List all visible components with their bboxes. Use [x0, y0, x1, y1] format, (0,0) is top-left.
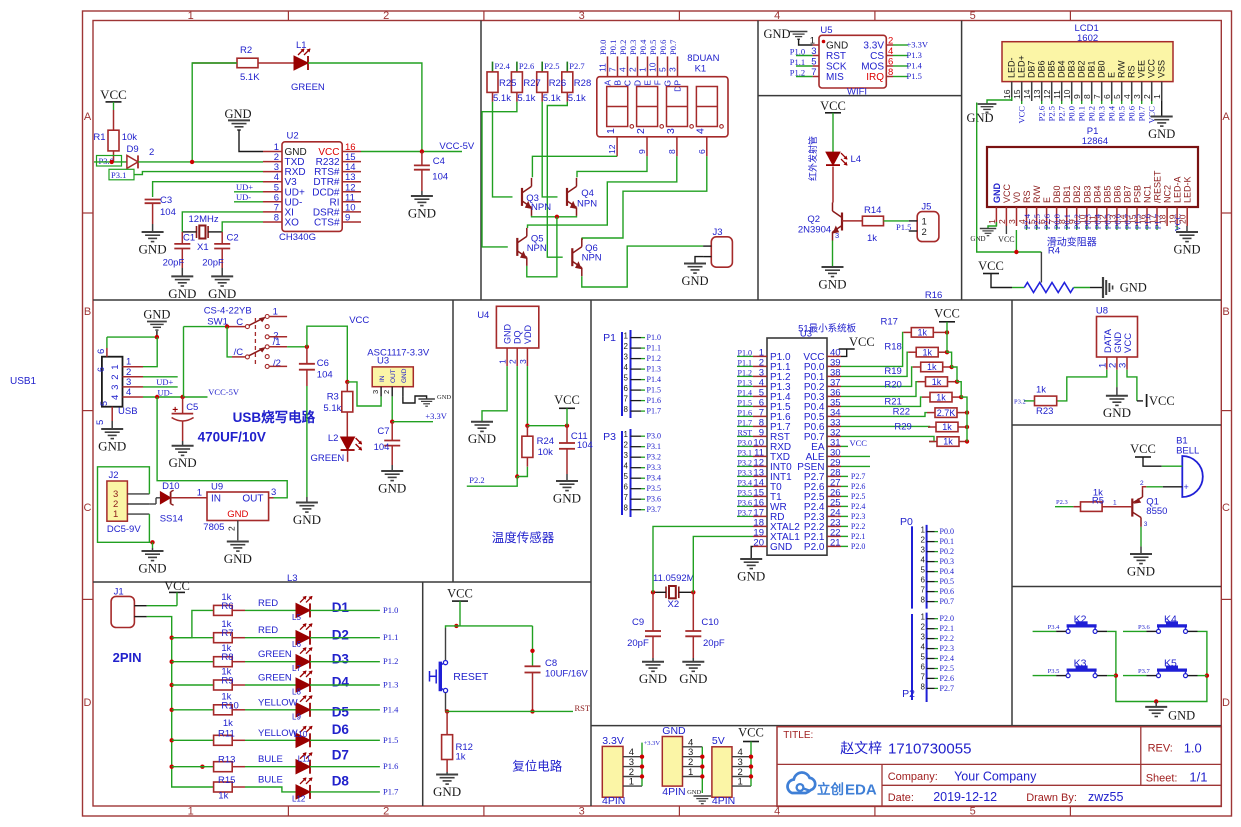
svg-text:1: 1	[624, 332, 629, 341]
svg-text:R11: R11	[218, 728, 235, 739]
ground under J2	[138, 548, 166, 575]
svg-text:温度传感器: 温度传感器	[492, 530, 555, 545]
svg-text:2PIN: 2PIN	[113, 650, 142, 665]
svg-text:C6: C6	[317, 358, 329, 369]
ground above U2 pin1	[224, 107, 263, 152]
svg-text:CTS#: CTS#	[314, 218, 340, 229]
power VCC top-left	[100, 87, 127, 110]
wire U4 DQ pin2	[515, 366, 519, 479]
svg-text:B: B	[613, 80, 623, 86]
wire U3 GND pin to ground	[403, 394, 451, 406]
pushbutton RESET	[430, 628, 489, 711]
svg-text:/RESET: /RESET	[1153, 170, 1163, 203]
svg-text:+3.3V: +3.3V	[907, 40, 929, 50]
svg-text:1k: 1k	[867, 233, 877, 244]
svg-text:USB烧写电路: USB烧写电路	[233, 409, 316, 425]
svg-text:LED-A: LED-A	[1173, 176, 1183, 203]
svg-text:R15: R15	[218, 775, 235, 786]
wire L1 to C4 column	[308, 63, 422, 152]
ground at U3 pin20	[737, 547, 765, 584]
svg-text:5: 5	[99, 401, 109, 406]
svg-text:VCC: VCC	[447, 587, 473, 601]
svg-text:NPN: NPN	[531, 202, 551, 213]
svg-text:1: 1	[921, 526, 926, 535]
svg-text:L11: L11	[298, 755, 311, 764]
svg-text:GND: GND	[681, 274, 708, 288]
header P1	[603, 330, 661, 418]
svg-text:104: 104	[577, 440, 593, 451]
svg-text:2: 2	[624, 441, 629, 450]
svg-text:3: 3	[665, 128, 677, 134]
ground at P1 pin1	[970, 222, 996, 243]
svg-text:3: 3	[518, 359, 528, 364]
svg-text:VCC: VCC	[978, 259, 1004, 273]
ground under C11	[553, 474, 581, 505]
svg-text:P3.4: P3.4	[1048, 624, 1060, 631]
wire P1 V0 pin3 to R4 wiper	[977, 103, 1042, 279]
svg-text:1: 1	[110, 364, 121, 369]
svg-text:10: 10	[648, 62, 658, 72]
svg-text:P1.0: P1.0	[790, 46, 805, 56]
svg-text:VCC: VCC	[349, 315, 369, 326]
svg-text:1: 1	[498, 359, 508, 364]
wire J2 pin3 loop to ground	[98, 467, 155, 548]
wire K1 pin8 to Q5 collector	[528, 156, 677, 228]
svg-text:P2: P2	[902, 688, 915, 700]
svg-text:2N3904: 2N3904	[798, 225, 831, 236]
svg-text:R23: R23	[1036, 406, 1053, 417]
svg-text:C: C	[623, 80, 633, 86]
svg-text:2: 2	[635, 128, 647, 134]
connector J5	[909, 202, 939, 242]
svg-text:EDA: EDA	[845, 782, 877, 799]
capacitor C5 470UF polarized	[172, 397, 199, 441]
svg-text:8DUAN: 8DUAN	[687, 53, 719, 64]
svg-text:P0.1: P0.1	[608, 40, 618, 55]
svg-text:P1.1: P1.1	[790, 57, 805, 67]
svg-text:2: 2	[921, 536, 926, 545]
module U5 WIFI	[810, 25, 894, 98]
svg-text:LED-K: LED-K	[1183, 176, 1193, 203]
svg-text:U3: U3	[377, 356, 389, 367]
svg-text:VCC: VCC	[1123, 333, 1134, 353]
svg-text:6: 6	[624, 384, 629, 393]
svg-text:GND: GND	[378, 480, 406, 495]
svg-text:DB0: DB0	[1097, 60, 1107, 78]
wire U2 V3 pin4 to C3	[153, 182, 263, 197]
svg-text:R1: R1	[93, 132, 105, 143]
svg-text:10UF/16V: 10UF/16V	[545, 669, 588, 680]
svg-text:YELLOW: YELLOW	[258, 697, 298, 708]
svg-text:1k: 1k	[927, 362, 937, 372]
svg-text:U2: U2	[287, 131, 299, 142]
svg-text:X1: X1	[197, 242, 209, 253]
svg-text:P1.4: P1.4	[907, 61, 923, 71]
wire K1 pin12 to Q3 collector	[532, 156, 617, 177]
svg-text:P1.1: P1.1	[738, 358, 752, 367]
svg-text:P2.5: P2.5	[1047, 106, 1057, 121]
ground under U9	[224, 542, 252, 566]
svg-text:D6: D6	[332, 722, 350, 737]
svg-text:P1.1: P1.1	[383, 632, 398, 642]
svg-text:GND: GND	[770, 542, 792, 553]
connector J3	[703, 227, 732, 267]
svg-text:4PIN: 4PIN	[662, 786, 685, 798]
connector GND 4PIN	[662, 725, 711, 804]
svg-text:3: 3	[1007, 219, 1017, 224]
svg-text:P1.3: P1.3	[647, 365, 661, 374]
svg-text:P1.5: P1.5	[738, 398, 752, 407]
svg-text:P2.2: P2.2	[940, 634, 954, 643]
wire USB shield net	[107, 335, 159, 367]
resistor R18 1k	[841, 342, 949, 377]
wire Q1 emitter to ground	[1127, 527, 1155, 579]
module U8	[1096, 306, 1138, 370]
svg-text:P0.3: P0.3	[940, 557, 954, 566]
svg-text:GREEN: GREEN	[311, 453, 345, 464]
svg-text:8: 8	[624, 504, 629, 513]
svg-text:P2.7: P2.7	[940, 684, 954, 693]
wire R26 to Q4 base	[542, 102, 557, 197]
svg-text:BULE: BULE	[258, 754, 283, 765]
svg-text:GND: GND	[826, 41, 848, 52]
svg-text:3: 3	[371, 390, 380, 394]
svg-text:15: 15	[1012, 89, 1022, 99]
svg-text:XO: XO	[285, 218, 300, 229]
wire XTAL1 pin19 to X2 right	[693, 536, 753, 592]
svg-text:P3.3: P3.3	[738, 468, 752, 477]
svg-text:3: 3	[668, 67, 678, 72]
transistor Q6 NPN	[572, 238, 601, 276]
capacitor C4 104	[414, 152, 448, 192]
svg-text:20pF: 20pF	[202, 258, 224, 269]
svg-text:P0.4: P0.4	[638, 39, 648, 55]
svg-text:P3.5: P3.5	[1048, 668, 1060, 675]
svg-text:1: 1	[1113, 500, 1117, 507]
capacitor C1 20pF	[163, 232, 196, 269]
connector USB1	[95, 348, 143, 425]
LED L9 D5	[232, 695, 349, 721]
svg-text:P1.6: P1.6	[647, 396, 661, 405]
svg-text:20: 20	[1178, 214, 1188, 224]
svg-text:DB1: DB1	[1062, 185, 1072, 203]
wire U2 XO pin8 to C2/X1	[222, 222, 263, 232]
svg-text:P1.4: P1.4	[738, 388, 752, 397]
svg-text:5.1k: 5.1k	[517, 93, 535, 104]
svg-text:VCC: VCC	[820, 99, 846, 113]
net port P3.1	[109, 169, 134, 180]
svg-text:SS14: SS14	[160, 514, 183, 525]
svg-text:5: 5	[624, 472, 629, 481]
svg-text:1k: 1k	[1036, 385, 1046, 396]
svg-text:14: 14	[1022, 89, 1032, 99]
svg-text:P0.1: P0.1	[940, 537, 954, 546]
ground under C4	[408, 191, 436, 220]
svg-text:P0.7: P0.7	[668, 40, 678, 55]
svg-text:P3.4: P3.4	[647, 474, 661, 483]
wire D6 to P1.5	[310, 735, 398, 745]
svg-text:VCC: VCC	[738, 726, 764, 740]
svg-text:P3.4: P3.4	[738, 478, 752, 487]
header P3	[603, 429, 661, 517]
svg-text:P1: P1	[603, 332, 616, 344]
wire R27 to Q5 base	[482, 102, 517, 247]
svg-text:GND: GND	[1103, 405, 1131, 420]
MCU U3 51 system	[737, 323, 857, 556]
header P0	[900, 516, 954, 609]
svg-text:MIS: MIS	[826, 72, 844, 83]
ground under C9	[639, 658, 667, 686]
svg-text:GREEN: GREEN	[258, 649, 292, 660]
svg-text:GND: GND	[169, 455, 197, 470]
svg-text:C8: C8	[545, 658, 557, 669]
svg-text:GND: GND	[224, 551, 252, 566]
svg-text:7805: 7805	[203, 522, 224, 533]
wire L4 to Q2 collector	[832, 167, 834, 203]
svg-text:P0.1: P0.1	[1077, 106, 1087, 121]
wire D3 to P1.2	[310, 656, 398, 666]
svg-text:RST: RST	[575, 703, 591, 713]
svg-text:DB6: DB6	[1037, 60, 1047, 78]
wire USB pin4 VCC-5V net	[143, 387, 240, 399]
svg-text:R19: R19	[884, 366, 901, 377]
svg-text:SCK: SCK	[826, 62, 847, 73]
svg-text:D9: D9	[127, 144, 139, 155]
display LCD1 1602	[1002, 23, 1173, 123]
svg-text:GND: GND	[139, 241, 167, 256]
capacitor C11 104	[559, 426, 593, 474]
svg-text:6: 6	[624, 483, 629, 492]
svg-text:P3.1: P3.1	[647, 442, 661, 451]
svg-text:GND: GND	[687, 789, 701, 796]
svg-text:IRQ: IRQ	[866, 72, 884, 83]
svg-text:DB5: DB5	[1102, 185, 1112, 203]
svg-text:BELL: BELL	[1176, 446, 1199, 457]
ground under C10	[679, 658, 707, 686]
wire PSEN pin29 stub	[841, 465, 870, 467]
svg-text:P1.2: P1.2	[383, 656, 398, 666]
resistor R22 2.7K	[841, 407, 969, 418]
svg-text:P3.6: P3.6	[738, 498, 752, 507]
svg-text:1/1: 1/1	[1189, 770, 1207, 785]
svg-text:4: 4	[618, 67, 628, 72]
Sheet cell	[1146, 770, 1208, 785]
svg-text:R5: R5	[1092, 496, 1104, 507]
display K1 8DUAN	[597, 39, 728, 156]
svg-text:P0.4: P0.4	[940, 567, 954, 576]
svg-text:P0.6: P0.6	[1127, 106, 1137, 121]
svg-text:VCC: VCC	[1002, 183, 1012, 203]
key K3	[1033, 658, 1108, 678]
svg-text:1710730055: 1710730055	[888, 741, 971, 758]
ground at LCD1 pin1	[1148, 117, 1175, 141]
svg-text:L8: L8	[292, 688, 301, 697]
svg-text:LED-: LED-	[1007, 57, 1017, 78]
svg-text:R18: R18	[884, 342, 901, 353]
svg-text:VCC-5V: VCC-5V	[208, 387, 240, 397]
svg-text:D1: D1	[332, 600, 350, 615]
svg-text:DQ: DQ	[513, 331, 523, 345]
svg-text:GND: GND	[468, 431, 496, 446]
svg-text:6: 6	[888, 57, 893, 68]
svg-text:1: 1	[638, 67, 648, 72]
svg-text:SW1: SW1	[207, 317, 228, 328]
resistor R1 10k	[93, 110, 137, 162]
wire U8 pin1 to R23	[1057, 370, 1107, 401]
svg-text:P0.0: P0.0	[1067, 106, 1077, 121]
svg-text:R14: R14	[864, 205, 881, 216]
svg-text:9: 9	[637, 149, 647, 154]
svg-text:L5: L5	[292, 613, 301, 622]
resistor R26 5.1k	[537, 61, 560, 102]
svg-text:1: 1	[197, 488, 202, 499]
svg-text:5: 5	[624, 374, 629, 383]
svg-text:1: 1	[1152, 94, 1162, 99]
svg-text:P1.2: P1.2	[790, 67, 805, 77]
svg-text:RST: RST	[738, 428, 753, 437]
svg-text:RED: RED	[258, 625, 278, 636]
wire LCD1 pin1 to ground	[1161, 101, 1163, 117]
transistor Q2 2N3904	[798, 203, 842, 241]
power VCC above L4	[820, 99, 846, 152]
wire Q2 emitter to ground	[832, 241, 834, 267]
svg-text:4: 4	[110, 395, 121, 400]
svg-text:3: 3	[579, 10, 585, 22]
svg-text:P0: P0	[900, 516, 913, 528]
svg-text:2: 2	[149, 147, 154, 158]
svg-text:5: 5	[921, 653, 926, 662]
svg-text:8: 8	[274, 213, 279, 224]
transistor Q3 NPN	[522, 178, 551, 216]
ground under USB pin5	[98, 421, 126, 453]
svg-text:DB0: DB0	[1052, 185, 1062, 203]
resistor R8 1k	[172, 643, 234, 667]
power VCC reset	[447, 587, 473, 626]
resistor R2	[192, 45, 294, 83]
svg-text:1: 1	[113, 509, 118, 520]
svg-text:VDD: VDD	[523, 324, 533, 344]
svg-text:2: 2	[508, 359, 518, 364]
svg-text:1: 1	[688, 767, 693, 778]
svg-text:P3.5: P3.5	[647, 484, 661, 493]
capacitor C9 20pF	[627, 592, 661, 658]
svg-text:2: 2	[383, 806, 389, 818]
svg-text:D3: D3	[332, 651, 350, 666]
ground under C2	[208, 268, 236, 301]
ground top of USB block	[143, 308, 170, 338]
svg-text:P2.1: P2.1	[940, 624, 954, 633]
svg-text:USB: USB	[118, 406, 138, 417]
svg-text:GND: GND	[992, 183, 1002, 204]
svg-text:5: 5	[921, 566, 926, 575]
svg-text:P3.2: P3.2	[738, 458, 752, 467]
svg-text:+: +	[1184, 482, 1189, 492]
wires P2 net labels right	[841, 472, 865, 551]
svg-text:WIFI: WIFI	[847, 87, 867, 98]
svg-text:IN: IN	[379, 375, 386, 382]
Date row	[888, 790, 1124, 804]
svg-text:TITLE:: TITLE:	[783, 730, 813, 741]
svg-text:A: A	[1222, 111, 1230, 123]
svg-text:P2.2: P2.2	[851, 522, 865, 531]
resistor R9 1k	[172, 667, 234, 691]
wire bus to row1	[172, 610, 214, 637]
svg-text:RED: RED	[258, 598, 278, 609]
svg-text:BULE: BULE	[258, 775, 283, 786]
svg-text:GND: GND	[1120, 281, 1147, 295]
svg-text:P3.7: P3.7	[647, 505, 661, 514]
svg-text:3: 3	[835, 231, 839, 240]
svg-text:4PIN: 4PIN	[602, 795, 625, 807]
svg-text:GND: GND	[503, 324, 513, 344]
svg-text:P1.6: P1.6	[383, 761, 398, 771]
svg-text:P0.0: P0.0	[598, 40, 608, 55]
svg-text:P0.6: P0.6	[940, 587, 954, 596]
lceda logo	[788, 773, 877, 799]
svg-text:GND: GND	[966, 111, 993, 125]
ground at R4 right rotated	[1074, 277, 1147, 298]
svg-text:2019-12-12: 2019-12-12	[933, 790, 997, 804]
svg-text:2: 2	[1142, 94, 1152, 99]
svg-text:18: 18	[1158, 214, 1168, 224]
svg-text:P1.5: P1.5	[907, 71, 922, 81]
svg-text:P0.0: P0.0	[940, 527, 954, 536]
svg-text:104: 104	[432, 172, 448, 183]
wire J1 pin2 to LED bus	[147, 617, 172, 638]
connector 5V 4PIN	[712, 726, 764, 808]
resistor R28 5.1k	[562, 61, 585, 102]
svg-text:GND: GND	[401, 368, 408, 383]
svg-text:P3.6: P3.6	[647, 495, 661, 504]
svg-text:P0.2: P0.2	[1087, 106, 1097, 121]
resistor R23 1k	[1014, 385, 1057, 418]
svg-text:3: 3	[624, 451, 629, 460]
svg-text:P1.3: P1.3	[738, 378, 752, 387]
svg-text:UD+: UD+	[236, 182, 253, 192]
wire D9 to U2 TXD pin2	[138, 161, 263, 163]
ground of keys	[1145, 699, 1195, 722]
svg-text:VCC: VCC	[849, 335, 875, 349]
svg-text:E: E	[1107, 72, 1117, 78]
svg-text:D10: D10	[162, 481, 179, 492]
svg-text:A: A	[84, 111, 92, 123]
power VCC bell	[1130, 442, 1182, 466]
ground under Q2	[818, 267, 846, 291]
LED L8 D4	[232, 671, 349, 697]
resistor R11 1k	[172, 728, 235, 745]
svg-text:1k: 1k	[932, 377, 942, 387]
resistor R15 1k	[214, 775, 236, 802]
resistor R7 1k	[172, 619, 234, 643]
svg-text:GND: GND	[293, 512, 321, 527]
resistor R25 5.1k	[487, 61, 511, 102]
frame column ticks and numbers	[188, 10, 1071, 818]
svg-text:VCC: VCC	[100, 87, 127, 102]
svg-text:DB4: DB4	[1057, 60, 1067, 78]
wire bell pin2 to Q1 collector	[1140, 480, 1182, 490]
svg-text:DB5: DB5	[1047, 60, 1057, 78]
svg-text:7: 7	[921, 672, 926, 681]
svg-text:P3.7: P3.7	[738, 508, 752, 517]
svg-text:1k: 1k	[218, 791, 228, 802]
net label UD+ wire	[234, 182, 263, 192]
svg-text:3: 3	[1144, 521, 1148, 528]
capacitor C7 104	[374, 422, 401, 465]
svg-text:11: 11	[1052, 90, 1062, 99]
svg-text:GREEN: GREEN	[291, 82, 325, 93]
LED bus vertical	[170, 636, 214, 788]
svg-text:9: 9	[345, 213, 350, 224]
